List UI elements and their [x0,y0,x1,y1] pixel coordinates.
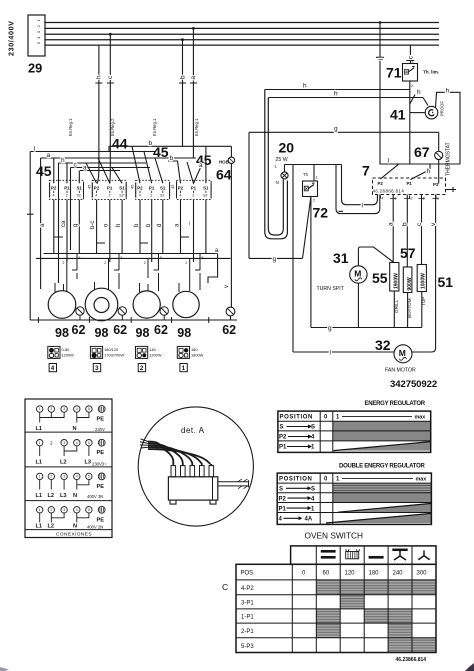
svg-text:51: 51 [438,274,454,290]
svg-text:a: a [83,165,87,172]
svg-text:5: 5 [160,256,162,260]
svg-text:4-P2: 4-P2 [241,586,254,592]
svg-text:1: 1 [437,197,439,201]
svg-text:h: h [427,168,431,175]
svg-text:2: 2 [109,194,111,198]
svg-text:4: 4 [95,194,97,198]
svg-text:1800W: 1800W [191,353,204,358]
svg-text:45: 45 [170,184,175,189]
svg-text:2: 2 [140,365,144,372]
svg-text:1200W: 1200W [62,353,75,358]
svg-text:P1: P1 [149,186,155,191]
svg-text:45: 45 [36,163,52,179]
svg-text:a: a [199,162,203,169]
svg-text:72: 72 [313,205,329,221]
svg-text:3: 3 [95,365,99,372]
svg-text:M: M [354,269,361,279]
svg-text:5: 5 [202,256,204,260]
svg-text:POSITION: POSITION [280,415,313,421]
svg-text:900W: 900W [407,277,413,290]
svg-text:S2: S2 [160,194,164,198]
svg-text:OVEN SWITCH: OVEN SWITCH [305,531,364,541]
svg-text:FAN MOTOR: FAN MOTOR [385,368,416,374]
svg-text:P1: P1 [407,181,413,186]
svg-text:45: 45 [153,144,169,160]
svg-text:S1: S1 [160,186,166,191]
svg-text:98: 98 [177,326,191,340]
svg-text:C: C [222,582,228,592]
svg-text:0-80: 0-80 [62,347,71,352]
svg-text:3: 3 [63,441,65,445]
svg-text:98: 98 [95,326,109,340]
svg-text:2-P1: 2-P1 [241,629,254,635]
svg-text:400V 2N: 400V 2N [87,525,103,530]
svg-text:1: 1 [39,508,41,512]
svg-text:46.26866.814: 46.26866.814 [373,189,405,194]
svg-text:4: 4 [76,407,78,411]
svg-text:2: 2 [150,194,152,198]
svg-text:N: N [73,493,77,499]
svg-text:a: a [190,76,197,80]
svg-text:140: 140 [149,347,156,352]
svg-text:h: h [446,88,450,95]
svg-text:4: 4 [382,197,384,201]
svg-text:CONEXIONES: CONEXIONES [56,532,92,538]
svg-text:h: h [116,224,122,227]
svg-text:g: g [73,224,79,227]
svg-text:P1: P1 [279,445,287,451]
svg-text:3: 3 [63,475,65,479]
svg-text:2: 2 [50,475,52,479]
svg-text:67: 67 [414,144,430,160]
svg-text:DOUBLE ENERGY REGULATOR: DOUBLE ENERGY REGULATOR [339,464,426,470]
svg-text:180: 180 [191,347,198,352]
svg-text:a: a [47,152,51,159]
svg-text:max: max [416,477,427,483]
svg-text:S: S [311,425,315,431]
svg-text:64: 64 [216,167,232,183]
svg-text:P3: P3 [433,182,439,187]
svg-text:POS.: POS. [241,571,256,577]
svg-text:2: 2 [50,508,52,512]
svg-text:L1: L1 [36,524,43,530]
svg-text:2: 2 [395,197,397,201]
svg-text:240: 240 [393,571,404,577]
svg-text:62: 62 [222,323,236,337]
svg-text:h: h [303,83,307,90]
svg-text:b: b [179,75,186,79]
svg-text:180/120: 180/120 [104,347,119,352]
svg-text:THERMOSTAT: THERMOSTAT [446,142,452,176]
svg-text:b: b [149,140,153,147]
svg-text:GRILL: GRILL [394,299,399,313]
svg-text:5: 5 [88,475,90,479]
svg-text:4: 4 [76,441,78,445]
svg-text:HOB: HOB [219,160,229,165]
svg-text:PE: PE [97,518,105,524]
svg-text:230V3~: 230V3~ [92,462,107,467]
svg-text:1700/700W: 1700/700W [104,353,124,358]
svg-text:1200W: 1200W [149,353,162,358]
svg-text:S2: S2 [119,194,123,198]
svg-text:S2: S2 [77,194,81,198]
svg-text:4: 4 [53,194,55,198]
svg-text:7: 7 [362,163,370,179]
svg-text:3: 3 [63,407,65,411]
svg-text:1: 1 [412,60,414,64]
svg-text:2: 2 [192,194,194,198]
svg-text:PE: PE [97,484,105,490]
svg-text:3-P1: 3-P1 [241,601,254,607]
svg-text:L1: L1 [36,493,43,499]
svg-text:55: 55 [372,270,388,286]
svg-text:L2: L2 [48,524,55,530]
svg-text:P2: P2 [137,186,143,191]
svg-text:2: 2 [66,194,68,198]
svg-text:46.23866.814: 46.23866.814 [396,657,427,663]
svg-text:2: 2 [50,407,52,411]
svg-text:41: 41 [390,107,406,123]
svg-text:300: 300 [417,571,428,577]
svg-text:25 W: 25 W [276,157,288,163]
svg-text:P2: P2 [279,496,287,502]
svg-text:2: 2 [411,84,413,88]
svg-text:En.Reg.1: En.Reg.1 [68,118,73,136]
svg-text:v: v [224,285,230,288]
svg-text:b-c: b-c [90,221,96,229]
svg-text:g: g [273,256,277,263]
svg-text:1-P1: 1-P1 [241,615,254,621]
svg-text:h: h [334,91,338,98]
svg-text:2: 2 [63,261,65,265]
svg-text:5: 5 [121,256,123,260]
svg-text:1: 1 [39,475,41,479]
svg-text:P1: P1 [107,186,113,191]
svg-text:L2: L2 [60,460,67,466]
svg-text:d: d [157,224,163,227]
svg-text:PE: PE [97,450,105,456]
svg-text:P2: P2 [51,186,57,191]
svg-text:L1: L1 [36,426,43,432]
svg-text:5: 5 [88,407,90,411]
svg-text:5: 5 [88,441,90,445]
svg-text:1: 1 [39,441,41,445]
svg-text:S1: S1 [119,186,125,191]
svg-text:g: g [334,126,338,133]
svg-text:h: h [417,89,421,96]
svg-text:4A: 4A [305,517,313,523]
svg-text:S: S [280,425,284,431]
svg-text:S: S [279,487,283,493]
svg-text:max: max [415,415,426,421]
svg-text:1000W: 1000W [421,273,427,289]
svg-text:BOTTOM: BOTTOM [407,298,412,318]
svg-text:62: 62 [113,323,127,337]
svg-text:det. A: det. A [181,426,205,435]
svg-text:1: 1 [316,176,318,180]
svg-text:b: b [170,155,174,162]
svg-text:60: 60 [323,571,330,577]
svg-text:L2: L2 [48,493,55,499]
svg-text:P2: P2 [378,181,384,186]
svg-text:a: a [388,222,395,226]
svg-text:31: 31 [333,250,349,266]
svg-text:32: 32 [375,337,391,353]
svg-text:M: M [399,348,406,358]
svg-text:5: 5 [79,256,81,260]
svg-text:98: 98 [136,326,150,340]
svg-text:1: 1 [182,365,186,372]
svg-text:20: 20 [279,140,295,156]
svg-text:57: 57 [400,245,416,261]
svg-text:L: L [275,164,278,169]
svg-text:1900W: 1900W [394,273,400,289]
svg-text:h: h [96,75,103,79]
svg-text:120: 120 [345,571,356,577]
svg-text:N: N [73,524,77,530]
svg-text:S2: S2 [203,194,207,198]
svg-text:PROOF: PROOF [440,101,445,116]
svg-text:45: 45 [130,184,135,189]
svg-text:N: N [73,426,77,432]
svg-text:L3: L3 [85,460,92,466]
svg-text:4: 4 [51,365,55,372]
svg-text:4: 4 [76,475,78,479]
svg-text:5: 5 [88,508,90,512]
svg-text:2: 2 [104,261,106,265]
svg-text:P2: P2 [279,435,287,441]
svg-text:TURN SPIT: TURN SPIT [317,286,345,292]
svg-text:L1: L1 [36,460,43,466]
svg-text:P1: P1 [64,186,70,191]
svg-text:PE: PE [97,417,105,423]
svg-text:29: 29 [28,61,42,76]
svg-text:b: b [402,222,409,226]
svg-text:h: h [61,157,65,164]
svg-text:P2: P2 [94,186,100,191]
svg-text:45: 45 [87,184,92,189]
svg-text:2: 2 [185,261,187,265]
svg-text:4: 4 [139,194,141,198]
svg-text:En.Reg.2: En.Reg.2 [110,118,115,136]
svg-text:1: 1 [39,407,41,411]
svg-text:4: 4 [76,508,78,512]
svg-text:En.Reg.1: En.Reg.1 [152,118,157,136]
svg-text:S1: S1 [77,186,83,191]
svg-text:TOP: TOP [421,297,426,306]
svg-text:g: g [328,325,332,332]
svg-text:POSITION: POSITION [279,477,312,483]
svg-text:N: N [276,180,279,185]
svg-text:4: 4 [179,194,181,198]
svg-text:98: 98 [55,326,69,340]
svg-text:71: 71 [386,65,402,81]
svg-text:S1: S1 [203,186,209,191]
svg-text:62: 62 [72,323,86,337]
svg-text:3: 3 [423,197,425,201]
svg-text:230V: 230V [95,427,105,432]
svg-text:P2: P2 [178,186,184,191]
svg-text:5-P3: 5-P3 [241,644,254,650]
svg-text:44: 44 [112,136,128,152]
svg-text:342750922: 342750922 [390,379,437,390]
svg-text:2: 2 [144,261,146,265]
svg-text:180: 180 [369,571,380,577]
svg-text:P1: P1 [191,186,197,191]
svg-text:ENERGY REGULATOR: ENERGY REGULATOR [365,401,426,407]
svg-text:En.Reg.1: En.Reg.1 [194,118,199,136]
svg-text:ca: ca [61,220,67,227]
svg-text:L3: L3 [60,493,67,499]
svg-text:Th: Th [303,172,309,177]
svg-text:3: 3 [63,508,65,512]
svg-text:62: 62 [154,323,168,337]
svg-text:400V 3N: 400V 3N [87,494,103,499]
svg-text:2: 2 [313,199,315,203]
svg-text:S: S [311,487,315,493]
svg-text:P1: P1 [279,506,287,512]
svg-text:2: 2 [411,197,413,201]
svg-text:Th. lim.: Th. lim. [423,70,439,75]
svg-text:230/400V: 230/400V [7,20,16,56]
